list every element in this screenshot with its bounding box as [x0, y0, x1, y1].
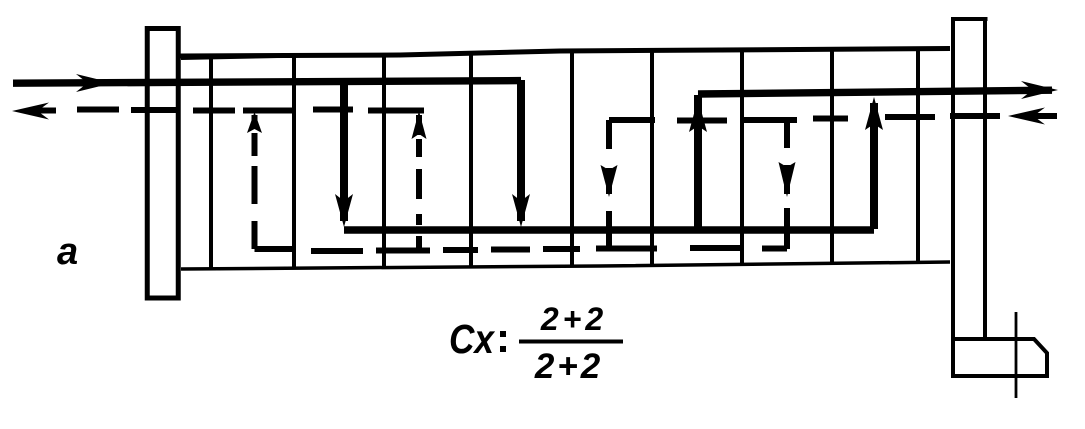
svg-text:2+2: 2+2	[540, 301, 607, 337]
svg-text:Cx: Cx	[449, 316, 496, 362]
svg-text:2+2: 2+2	[534, 347, 603, 386]
svg-text:a: a	[57, 231, 78, 273]
